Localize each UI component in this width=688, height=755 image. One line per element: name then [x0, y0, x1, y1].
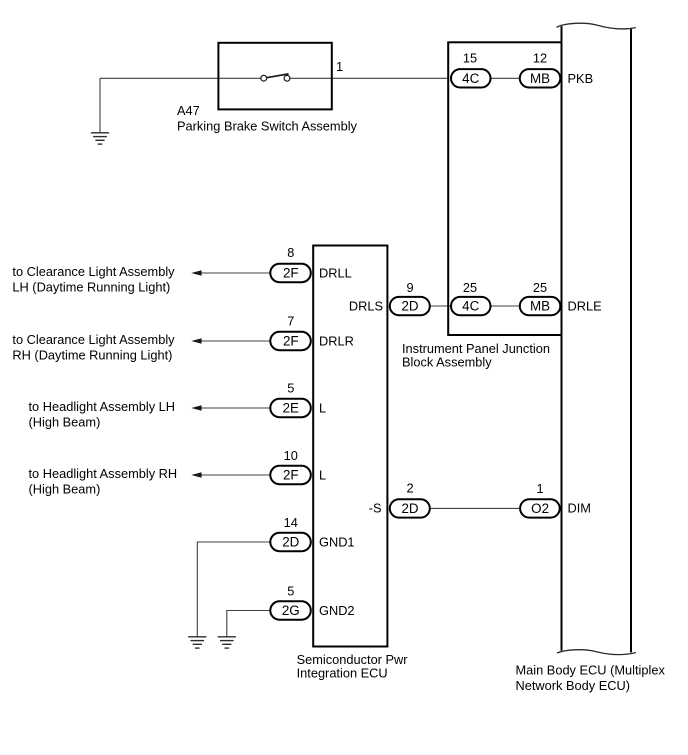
svg-text:5: 5 [287, 583, 294, 598]
svg-text:2: 2 [406, 480, 413, 495]
svg-text:14: 14 [284, 515, 298, 530]
svg-text:RH (Daytime Running Light): RH (Daytime Running Light) [12, 347, 172, 362]
svg-text:12: 12 [533, 50, 547, 65]
svg-text:Main Body ECU (Multiplex: Main Body ECU (Multiplex [516, 662, 666, 677]
svg-text:to Headlight Assembly LH: to Headlight Assembly LH [29, 399, 176, 414]
svg-text:to Clearance Light Assembly: to Clearance Light Assembly [12, 332, 175, 347]
svg-text:-S: -S [369, 501, 382, 516]
svg-text:LH (Daytime Running Light): LH (Daytime Running Light) [12, 279, 170, 294]
svg-text:DRLE: DRLE [568, 299, 602, 314]
svg-text:2D: 2D [401, 501, 418, 516]
svg-text:Block Assembly: Block Assembly [402, 354, 492, 369]
svg-text:2D: 2D [401, 299, 418, 314]
svg-text:(High Beam): (High Beam) [29, 481, 101, 496]
svg-text:8: 8 [287, 245, 294, 260]
svg-text:2F: 2F [283, 468, 299, 483]
svg-text:25: 25 [463, 280, 477, 295]
svg-text:to Clearance Light Assembly: to Clearance Light Assembly [12, 264, 175, 279]
svg-text:5: 5 [287, 381, 294, 396]
svg-text:4C: 4C [462, 299, 479, 314]
svg-text:DRLS: DRLS [349, 299, 383, 314]
svg-text:Integration ECU: Integration ECU [297, 665, 388, 680]
svg-text:4C: 4C [462, 71, 479, 86]
svg-text:PKB: PKB [568, 71, 594, 86]
svg-text:DRLL: DRLL [319, 265, 352, 280]
svg-text:L: L [319, 467, 326, 482]
svg-text:9: 9 [406, 280, 413, 295]
svg-text:GND1: GND1 [319, 534, 355, 549]
svg-text:GND2: GND2 [319, 603, 355, 618]
svg-text:A47: A47 [177, 103, 200, 118]
svg-text:1: 1 [336, 59, 343, 74]
svg-text:Parking Brake Switch Assembly: Parking Brake Switch Assembly [177, 119, 358, 134]
svg-text:DIM: DIM [568, 501, 591, 516]
svg-text:1: 1 [537, 481, 544, 496]
svg-text:15: 15 [463, 50, 477, 65]
svg-text:2F: 2F [283, 334, 299, 349]
svg-text:(High Beam): (High Beam) [29, 414, 101, 429]
svg-text:2E: 2E [283, 401, 299, 416]
svg-text:7: 7 [287, 313, 294, 328]
svg-text:MB: MB [530, 299, 550, 314]
svg-text:DRLR: DRLR [319, 333, 354, 348]
svg-text:L: L [319, 400, 326, 415]
svg-text:O2: O2 [531, 501, 549, 516]
svg-text:MB: MB [530, 71, 550, 86]
svg-text:2F: 2F [283, 266, 299, 281]
svg-text:10: 10 [284, 448, 298, 463]
svg-text:2G: 2G [282, 603, 300, 618]
svg-text:2D: 2D [282, 535, 299, 550]
svg-text:Network Body ECU): Network Body ECU) [516, 678, 631, 693]
svg-text:to Headlight Assembly RH: to Headlight Assembly RH [29, 466, 178, 481]
svg-text:25: 25 [533, 280, 547, 295]
